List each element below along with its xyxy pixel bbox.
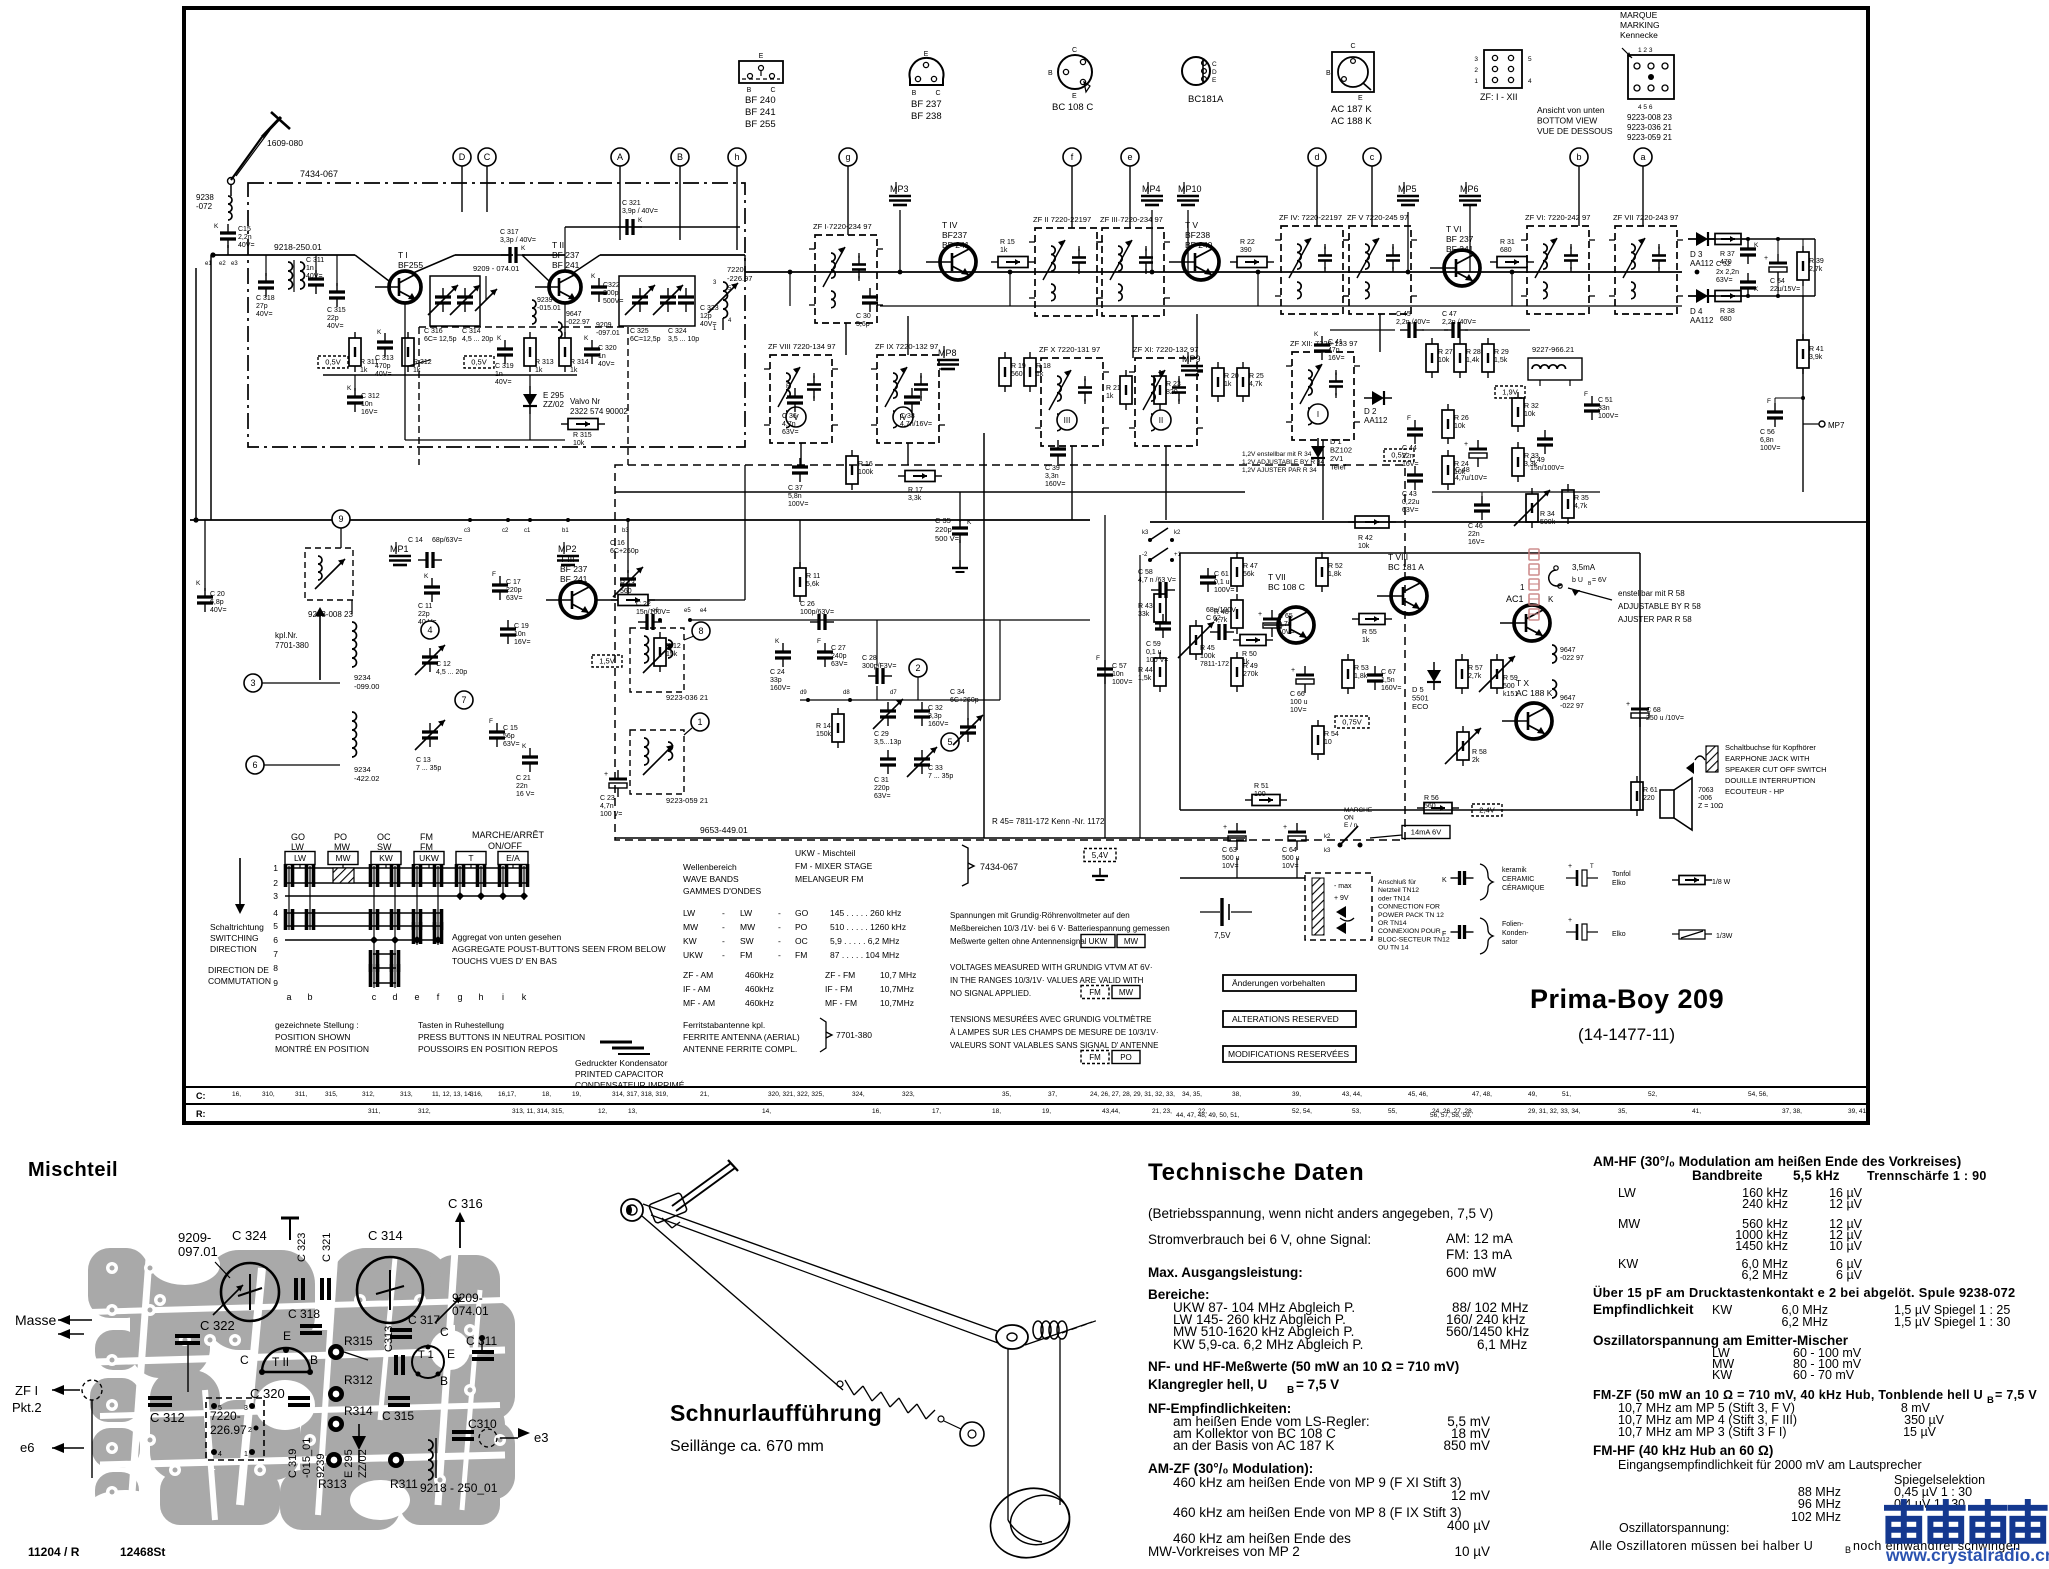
svg-text:43, 44,: 43, 44, bbox=[1342, 1091, 1362, 1098]
cap C51 33n bbox=[1584, 403, 1600, 406]
switch button UKW bbox=[414, 852, 444, 865]
svg-text:c2: c2 bbox=[502, 528, 509, 534]
svg-text:6C= 12,5p: 6C= 12,5p bbox=[424, 336, 457, 343]
printed capacitor symbol bbox=[600, 1041, 632, 1044]
svg-text:ZF IV: 7220-22197: ZF IV: 7220-22197 bbox=[1279, 213, 1342, 222]
svg-text:R312: R312 bbox=[344, 1373, 373, 1387]
svg-text:Z = 10: Z = 10 bbox=[1698, 803, 1718, 810]
pcb pad R314 bbox=[328, 1416, 344, 1432]
svg-text:7 ... 35p: 7 ... 35p bbox=[928, 773, 953, 780]
svg-text:0,1 u: 0,1 u bbox=[1214, 579, 1230, 586]
svg-text:+: + bbox=[1291, 667, 1295, 674]
svg-text:R 13: R 13 bbox=[620, 580, 635, 587]
svg-text:311,: 311, bbox=[368, 1108, 380, 1115]
node 3 circle bbox=[244, 674, 262, 692]
svg-text:e6: e6 bbox=[20, 1440, 34, 1455]
resistor R29 1,5k bbox=[1482, 344, 1494, 372]
svg-text:E: E bbox=[283, 1329, 291, 1343]
svg-text:UKW: UKW bbox=[683, 950, 703, 960]
node f bbox=[1063, 148, 1081, 166]
svg-text:K: K bbox=[638, 217, 643, 224]
svg-text:10,7 MHz: 10,7 MHz bbox=[880, 970, 916, 980]
transistor T V BF238 BF240 bbox=[1183, 244, 1219, 280]
svg-text:K: K bbox=[1548, 595, 1554, 604]
svg-text:-022.97: -022.97 bbox=[566, 319, 590, 326]
svg-text:5,4V: 5,4V bbox=[1092, 851, 1109, 860]
svg-text:k3: k3 bbox=[1142, 530, 1149, 536]
svg-text:500: 500 bbox=[1503, 683, 1515, 690]
svg-text:MW: MW bbox=[1124, 937, 1139, 946]
svg-text:C15: C15 bbox=[238, 226, 251, 233]
svg-text:7811-172: 7811-172 bbox=[1200, 661, 1229, 668]
switching direction arrow bbox=[239, 858, 241, 908]
svg-text:C 28: C 28 bbox=[862, 655, 877, 662]
svg-text:21, 23,: 21, 23, bbox=[1152, 1108, 1172, 1115]
svg-text:5: 5 bbox=[218, 1405, 222, 1412]
svg-text:2: 2 bbox=[915, 663, 920, 673]
cap C20 6,8p bbox=[197, 595, 213, 598]
svg-text:FM: FM bbox=[1089, 1053, 1101, 1062]
svg-text:0,5V: 0,5V bbox=[1391, 451, 1406, 460]
cap C68 250u bbox=[1631, 708, 1649, 711]
resistor R33 3,3k bbox=[1512, 448, 1524, 476]
svg-text:313,: 313, bbox=[400, 1091, 413, 1098]
svg-text:145 . . . . . 260 kHz: 145 . . . . . 260 kHz bbox=[830, 908, 901, 918]
svg-text:9209 - 074.01: 9209 - 074.01 bbox=[473, 264, 519, 273]
cap C23 4,7u bbox=[609, 778, 627, 781]
svg-text:850 mV: 850 mV bbox=[1443, 1438, 1490, 1453]
svg-text:FM: FM bbox=[420, 832, 433, 842]
svg-text:9647: 9647 bbox=[1560, 647, 1576, 654]
svg-text:KW: KW bbox=[1712, 1368, 1732, 1382]
svg-text:R 18: R 18 bbox=[1036, 363, 1051, 370]
svg-text:316,: 316, bbox=[470, 1091, 483, 1098]
svg-text:Stromverbrauch bei 6 V, ohne S: Stromverbrauch bei 6 V, ohne Signal: bbox=[1148, 1232, 1371, 1247]
svg-text:100k: 100k bbox=[1200, 653, 1216, 660]
resistor R14 150k bbox=[832, 714, 844, 742]
svg-text:PRESS BUTTONS IN NEUTRAL P: PRESS BUTTONS IN NEUTRAL POSITION bbox=[418, 1032, 585, 1042]
svg-text:R 25: R 25 bbox=[1249, 373, 1264, 380]
node a bbox=[1634, 148, 1652, 166]
svg-text:T VI: T VI bbox=[1446, 224, 1461, 234]
zener D1 BZ102 bbox=[1311, 446, 1325, 458]
svg-text:314, 317, 318, 319,: 314, 317, 318, 319, bbox=[612, 1091, 668, 1098]
svg-text:K: K bbox=[347, 385, 352, 392]
svg-text:E: E bbox=[1358, 95, 1363, 102]
legend strip line C bbox=[184, 1086, 1868, 1088]
test point MP6 bbox=[1459, 195, 1481, 198]
wire x1140 bbox=[1139, 555, 1141, 838]
cap C312 10n bbox=[347, 395, 363, 398]
svg-text:Masse: Masse bbox=[15, 1312, 56, 1328]
wire amp bias bbox=[1432, 491, 1600, 493]
svg-text:100V=: 100V= bbox=[1760, 445, 1780, 452]
boxed 2,4V bbox=[1472, 804, 1502, 816]
svg-text:ZF - AM: ZF - AM bbox=[683, 970, 713, 980]
svg-text:BF 241: BF 241 bbox=[745, 107, 776, 118]
svg-text:4,7u/10V=: 4,7u/10V= bbox=[1455, 475, 1487, 482]
cap C321 3,9p feedback bbox=[565, 226, 740, 228]
cap C24 33p bbox=[775, 650, 791, 653]
svg-text:UKW: UKW bbox=[419, 853, 439, 863]
svg-text:7: 7 bbox=[273, 949, 278, 959]
svg-text:8: 8 bbox=[273, 963, 278, 973]
svg-text:45, 46,: 45, 46, bbox=[1408, 1091, 1428, 1098]
alterations box fr bbox=[1223, 1046, 1356, 1062]
cap C319 1n bbox=[497, 347, 513, 350]
svg-text:MW: MW bbox=[740, 922, 755, 932]
svg-text:EARPHONE JACK WITH: EARPHONE JACK WITH bbox=[1725, 754, 1810, 763]
resistor R48 4,7k bbox=[1231, 600, 1243, 628]
svg-text:2,7k: 2,7k bbox=[1809, 266, 1823, 273]
svg-text:Schaltbuchse für Kopfhörer: Schaltbuchse für Kopfhörer bbox=[1725, 743, 1816, 752]
svg-text:b1: b1 bbox=[562, 528, 569, 534]
svg-text:K: K bbox=[1442, 877, 1447, 884]
svg-text:5: 5 bbox=[273, 921, 278, 931]
svg-text:6,2 MHz: 6,2 MHz bbox=[1741, 1268, 1788, 1282]
svg-text:3,3p / 40V=: 3,3p / 40V= bbox=[500, 237, 536, 244]
svg-text:33k: 33k bbox=[1138, 611, 1150, 618]
svg-text:220p: 220p bbox=[874, 785, 890, 792]
svg-text:MARQUE: MARQUE bbox=[1620, 10, 1658, 20]
cap C26 100p bbox=[817, 614, 820, 630]
cap C62 68n bbox=[1217, 624, 1220, 640]
svg-text:ZF: I - XII: ZF: I - XII bbox=[1480, 92, 1518, 102]
cord vertical right bbox=[1007, 1349, 1009, 1520]
svg-text:AA112: AA112 bbox=[1364, 416, 1388, 425]
svg-text:9209: 9209 bbox=[596, 322, 612, 329]
svg-text:MP1: MP1 bbox=[390, 544, 409, 554]
svg-text:10k: 10k bbox=[573, 440, 585, 447]
svg-text:6,8p: 6,8p bbox=[210, 599, 224, 606]
osc coil box 9223-059.21 bbox=[630, 730, 684, 794]
svg-text:96 MHz: 96 MHz bbox=[1798, 1497, 1841, 1511]
svg-text:R 54: R 54 bbox=[1324, 731, 1339, 738]
svg-text:55,: 55, bbox=[1388, 1108, 1397, 1115]
osc bus bbox=[690, 619, 1090, 621]
legend strip line R bbox=[184, 1103, 1868, 1105]
svg-text:À LAMPES SUR LES CHAMPS DE: À LAMPES SUR LES CHAMPS DE MESURE DE 10/… bbox=[950, 1028, 1159, 1037]
svg-text:C 56: C 56 bbox=[1760, 429, 1775, 436]
svg-text:kpl.Nr.: kpl.Nr. bbox=[275, 631, 298, 640]
resistor R35 4,7k bbox=[1562, 490, 1574, 518]
svg-text:2,4V: 2,4V bbox=[1479, 806, 1494, 815]
node 2 circle bbox=[909, 659, 927, 677]
svg-text:240 kHz: 240 kHz bbox=[1742, 1197, 1788, 1211]
kpl arrow bbox=[319, 612, 321, 680]
svg-text:820: 820 bbox=[1166, 389, 1178, 396]
svg-text:AJUSTER PAR R 58: AJUSTER PAR R 58 bbox=[1618, 615, 1692, 624]
svg-text:C 47: C 47 bbox=[1442, 311, 1457, 318]
svg-text:R 11: R 11 bbox=[806, 573, 820, 580]
svg-text:Trennschärfe 1 : 90: Trennschärfe 1 : 90 bbox=[1867, 1169, 1987, 1183]
svg-text:2,2n /40V=: 2,2n /40V= bbox=[1396, 319, 1430, 326]
svg-text:AGGREGATE POUST-BUTTONS SEEN: AGGREGATE POUST-BUTTONS SEEN FROM BELOW bbox=[452, 944, 666, 954]
svg-text:LW: LW bbox=[291, 842, 304, 852]
node 6 circle bbox=[246, 756, 264, 774]
svg-text:7220-: 7220- bbox=[210, 1409, 241, 1423]
node 9 circle bbox=[332, 510, 350, 528]
node B bbox=[671, 148, 689, 166]
resistor R38 680 bbox=[1715, 291, 1741, 302]
svg-text:-: - bbox=[778, 950, 781, 960]
pinout BF240 family package bbox=[739, 61, 783, 83]
svg-text:7 ... 35p: 7 ... 35p bbox=[416, 765, 441, 772]
resistor R56 560 boxed bbox=[1424, 803, 1452, 814]
svg-text:16 V=: 16 V= bbox=[516, 791, 535, 798]
svg-text:C 31: C 31 bbox=[874, 777, 889, 784]
svg-text:oder TN14: oder TN14 bbox=[1378, 895, 1410, 902]
svg-text:5,6p: 5,6p bbox=[856, 321, 870, 328]
svg-text:5,5 kHz: 5,5 kHz bbox=[1793, 1168, 1840, 1183]
cap C32 3,3p bbox=[914, 709, 930, 712]
svg-text:C: C bbox=[1212, 61, 1217, 68]
cap C48 4,7u bbox=[1469, 448, 1487, 451]
svg-text:b U: b U bbox=[1572, 577, 1583, 584]
svg-text:1,5 µV Spiegel 1 : 30: 1,5 µV Spiegel 1 : 30 bbox=[1894, 1315, 2010, 1329]
svg-text:T X: T X bbox=[1516, 678, 1529, 688]
cap C28 300p bbox=[875, 668, 878, 684]
svg-text:5,6k: 5,6k bbox=[806, 581, 820, 588]
svg-text:470p: 470p bbox=[375, 363, 391, 370]
svg-text:SW: SW bbox=[740, 936, 754, 946]
node D bbox=[453, 148, 471, 166]
resistor R53 1,8k bbox=[1342, 660, 1354, 688]
cap C31 220p bbox=[880, 757, 896, 760]
svg-text:enstellbar mit R 58: enstellbar mit R 58 bbox=[1618, 589, 1685, 598]
svg-text:FM - MIXER STAGE: FM - MIXER STAGE bbox=[795, 861, 873, 871]
svg-text:Anschluß für: Anschluß für bbox=[1378, 879, 1417, 886]
svg-text:MP4: MP4 bbox=[1142, 184, 1161, 194]
svg-text:39,: 39, bbox=[1292, 1091, 1301, 1098]
svg-text:D 3: D 3 bbox=[1690, 250, 1703, 259]
svg-text:MW: MW bbox=[335, 853, 350, 863]
resistor R43 33k bbox=[1154, 594, 1166, 622]
svg-text:40V=: 40V= bbox=[375, 371, 392, 378]
svg-text:600 mW: 600 mW bbox=[1446, 1265, 1497, 1280]
svg-text:B: B bbox=[747, 87, 752, 94]
svg-text:R 27: R 27 bbox=[1438, 349, 1453, 356]
node A bbox=[611, 148, 629, 166]
wire ZFXII down bbox=[1322, 440, 1324, 520]
svg-text:9223-036 21: 9223-036 21 bbox=[1627, 123, 1672, 132]
cap C57 10n bbox=[1097, 667, 1113, 670]
svg-text:6,8n: 6,8n bbox=[1760, 437, 1774, 444]
svg-text:3,5...13p: 3,5...13p bbox=[874, 739, 901, 746]
svg-text:R 58: R 58 bbox=[1472, 749, 1487, 756]
svg-text:Konden-: Konden- bbox=[1502, 930, 1529, 937]
svg-text:K: K bbox=[1754, 242, 1759, 249]
svg-text:-: - bbox=[778, 908, 781, 918]
svg-text:MW: MW bbox=[683, 922, 698, 932]
pcb cap C318 bbox=[300, 1324, 322, 1328]
resistor R17 3,3k bbox=[905, 471, 935, 482]
input node dots bbox=[210, 252, 215, 257]
svg-text:1,2V enstellbar mit R 34: 1,2V enstellbar mit R 34 bbox=[1242, 451, 1312, 458]
svg-text:C 63: C 63 bbox=[1222, 847, 1237, 854]
svg-text:PO: PO bbox=[334, 832, 347, 842]
long bus y520 bbox=[190, 519, 1090, 521]
wire detector bot bbox=[1688, 295, 1815, 297]
svg-text:4,7k: 4,7k bbox=[1574, 503, 1588, 510]
wire osc out bbox=[727, 255, 815, 272]
wire ZFX down bbox=[1071, 446, 1073, 520]
svg-text:ZF V 7220-245 97: ZF V 7220-245 97 bbox=[1347, 213, 1408, 222]
svg-text:FM: FM bbox=[1089, 988, 1101, 997]
tuning cap C34 bbox=[960, 725, 976, 728]
svg-text:+: + bbox=[1764, 255, 1768, 262]
svg-text:IN THE RANGES 10/3/1V· VALU: IN THE RANGES 10/3/1V· VALUES ARE VALID … bbox=[950, 976, 1144, 985]
svg-text:B: B bbox=[440, 1374, 448, 1388]
transistor T III BF237 BF241 bbox=[560, 582, 596, 618]
svg-text:k2: k2 bbox=[1174, 530, 1181, 536]
boxed 1,5V bbox=[592, 655, 622, 667]
svg-text:-: - bbox=[778, 936, 781, 946]
pcb pad R311 bbox=[388, 1452, 404, 1468]
svg-text:+: + bbox=[604, 771, 608, 778]
cap C14 68p bbox=[425, 552, 428, 568]
svg-text:R 26: R 26 bbox=[1454, 415, 1469, 422]
svg-text:ZF I: ZF I bbox=[15, 1383, 38, 1398]
antenna coupling coil 9238-072 bbox=[230, 185, 232, 196]
svg-text:312,: 312, bbox=[362, 1091, 375, 1098]
svg-text:C 17: C 17 bbox=[506, 579, 521, 586]
svg-text:1k: 1k bbox=[1362, 637, 1370, 644]
svg-text:220p: 220p bbox=[935, 525, 952, 534]
svg-text:680: 680 bbox=[1500, 247, 1512, 254]
svg-text:R 31: R 31 bbox=[1500, 239, 1515, 246]
svg-text:BC 108 C: BC 108 C bbox=[1268, 582, 1305, 592]
oscillator coil 7220-226.97 bbox=[723, 282, 728, 318]
svg-text:MARCHE/ARRÊT: MARCHE/ARRÊT bbox=[472, 830, 545, 840]
cord drum bbox=[981, 1478, 1078, 1567]
svg-text:C 39: C 39 bbox=[1045, 465, 1060, 472]
svg-text:56k: 56k bbox=[1243, 571, 1255, 578]
svg-text:Tasten in Ruhestellung: Tasten in Ruhestellung bbox=[418, 1020, 504, 1030]
svg-text:AC 188 K: AC 188 K bbox=[1331, 116, 1372, 127]
tuning key lever bbox=[648, 1192, 687, 1223]
svg-text:T II: T II bbox=[552, 240, 564, 250]
svg-text:E: E bbox=[1212, 77, 1217, 84]
cord pulley mid bbox=[996, 1325, 1028, 1349]
svg-text:47, 48,: 47, 48, bbox=[1472, 1091, 1492, 1098]
svg-text:VOLTAGES MEASURED WITH GRU: VOLTAGES MEASURED WITH GRUNDIG VTVM AT 6… bbox=[950, 963, 1153, 972]
svg-text:Alle Oszillatoren müssen be: Alle Oszillatoren müssen bei halber U bbox=[1590, 1539, 1813, 1553]
svg-text:D 4: D 4 bbox=[1690, 307, 1703, 316]
svg-text:680: 680 bbox=[1720, 316, 1732, 323]
svg-text:C 43: C 43 bbox=[1402, 491, 1417, 498]
svg-text:460 kHz am heißen Ende von MP: 460 kHz am heißen Ende von MP 8 (F IX St… bbox=[1173, 1505, 1462, 1520]
svg-text:16V=: 16V= bbox=[514, 639, 531, 646]
svg-text:22p: 22p bbox=[418, 611, 430, 618]
pinout BF237/BF238 package bbox=[910, 58, 944, 85]
border frame bbox=[184, 8, 1868, 1123]
svg-text:C 312: C 312 bbox=[150, 1410, 185, 1425]
svg-text:g: g bbox=[457, 992, 462, 1002]
svg-text:MELANGEUR FM: MELANGEUR FM bbox=[795, 874, 863, 884]
svg-text:C 316: C 316 bbox=[424, 328, 443, 335]
red watermark strip bbox=[1529, 549, 1539, 620]
wire ZFIV to ZFXI bbox=[1196, 314, 1198, 358]
svg-text:E 295: E 295 bbox=[343, 1449, 355, 1478]
svg-text:C 320: C 320 bbox=[598, 345, 617, 352]
pot R58 2k bbox=[1457, 732, 1469, 760]
svg-text:10k: 10k bbox=[1358, 543, 1370, 550]
svg-text:R 14: R 14 bbox=[816, 723, 831, 730]
svg-text:T 1: T 1 bbox=[418, 1349, 434, 1361]
svg-text:9653-449.01: 9653-449.01 bbox=[700, 825, 748, 835]
svg-text:500V=: 500V= bbox=[603, 298, 623, 305]
svg-text:-: - bbox=[722, 922, 725, 932]
svg-text:C 321: C 321 bbox=[321, 1233, 333, 1262]
svg-text:9209-: 9209- bbox=[452, 1291, 483, 1305]
svg-text:Elko: Elko bbox=[1612, 931, 1626, 938]
pcb pad R315 bbox=[328, 1344, 344, 1360]
wire x1105 bbox=[1104, 515, 1106, 838]
svg-text:OR TN14: OR TN14 bbox=[1378, 920, 1407, 927]
svg-text:49,: 49, bbox=[1528, 1091, 1537, 1098]
pcb transistor TII bbox=[262, 1348, 310, 1372]
pcb pad R313 bbox=[326, 1452, 342, 1468]
resistor R41 3,9k bbox=[1797, 340, 1809, 368]
svg-text:R313: R313 bbox=[318, 1477, 347, 1491]
adjust note R58 bbox=[1568, 588, 1612, 600]
cord run mid bbox=[651, 1215, 998, 1343]
svg-text:35,: 35, bbox=[1618, 1108, 1627, 1115]
svg-text:e5: e5 bbox=[684, 608, 691, 614]
svg-text:3,5 ... 10p: 3,5 ... 10p bbox=[668, 336, 699, 343]
svg-text:4: 4 bbox=[1528, 78, 1532, 85]
svg-text:Mischteil: Mischteil bbox=[28, 1159, 118, 1181]
node h bbox=[728, 148, 746, 166]
svg-text:T V: T V bbox=[1185, 220, 1198, 230]
svg-text:C 22: C 22 bbox=[636, 601, 651, 608]
FM coil 9234-099.00 bbox=[352, 622, 357, 667]
svg-text:DIRECTION DE: DIRECTION DE bbox=[208, 965, 269, 975]
svg-text:270k: 270k bbox=[1243, 671, 1259, 678]
svg-text:E / n: E / n bbox=[1344, 822, 1358, 829]
svg-text:+: + bbox=[1283, 824, 1287, 831]
svg-text:DIRECTION: DIRECTION bbox=[210, 944, 257, 954]
svg-text:C313: C313 bbox=[383, 1326, 395, 1352]
svg-text:-: - bbox=[722, 936, 725, 946]
svg-text:B: B bbox=[310, 1353, 318, 1367]
svg-text:160V=: 160V= bbox=[1045, 481, 1065, 488]
svg-text:-: - bbox=[722, 950, 725, 960]
svg-text:CERAMIC: CERAMIC bbox=[1502, 876, 1534, 883]
svg-text:E: E bbox=[1072, 93, 1077, 100]
svg-text:R 47: R 47 bbox=[1243, 563, 1258, 570]
svg-text:C 46: C 46 bbox=[1468, 523, 1483, 530]
svg-text:FM-ZF (50 mW an 10 Ω = 710 mV,: FM-ZF (50 mW an 10 Ω = 710 mV, 40 kHz Hu… bbox=[1593, 1388, 1983, 1402]
svg-text:ON/OFF: ON/OFF bbox=[488, 841, 522, 851]
svg-text:B: B bbox=[1287, 1385, 1294, 1396]
node 4 circle bbox=[421, 621, 439, 639]
svg-text:R 42: R 42 bbox=[1358, 535, 1373, 542]
svg-text:Schnurlaufführung: Schnurlaufführung bbox=[670, 1400, 882, 1426]
svg-text:C 37: C 37 bbox=[788, 485, 803, 492]
cap C39 3,3n bbox=[1050, 447, 1066, 450]
svg-text:10V=: 10V= bbox=[1222, 863, 1239, 870]
svg-text:-072: -072 bbox=[196, 202, 213, 211]
svg-text:C 59: C 59 bbox=[1146, 641, 1161, 648]
svg-text:d9: d9 bbox=[800, 690, 807, 696]
svg-text:+: + bbox=[1464, 441, 1468, 448]
svg-text:Valvo Nr: Valvo Nr bbox=[570, 397, 600, 406]
svg-text:150k: 150k bbox=[816, 731, 832, 738]
resistor R37 470 bbox=[1715, 234, 1741, 245]
pcb shield box 7220-226.97 bbox=[206, 1398, 264, 1460]
